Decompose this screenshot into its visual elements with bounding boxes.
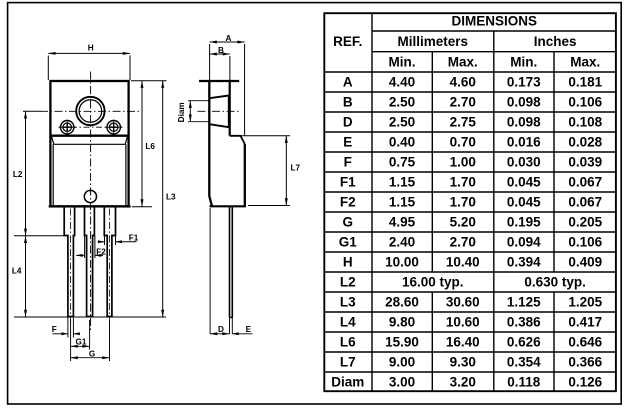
lead left [64, 206, 74, 316]
mounting hole [76, 97, 104, 125]
vertical in min/max [553, 52, 555, 392]
svg-text:0.067: 0.067 [568, 195, 602, 210]
svg-text:10.40: 10.40 [446, 255, 480, 270]
svg-text:30.60: 30.60 [446, 295, 480, 310]
dimension A [210, 42, 245, 136]
svg-text:1.70: 1.70 [450, 175, 476, 190]
svg-text:E: E [246, 325, 252, 334]
dimension F2 [76, 236, 103, 258]
svg-text:4.60: 4.60 [450, 75, 476, 90]
svg-text:1.125: 1.125 [507, 295, 541, 310]
svg-text:9.30: 9.30 [450, 355, 476, 370]
table outer border [324, 13, 616, 391]
svg-text:Max.: Max. [448, 55, 478, 70]
top edge [199, 80, 239, 82]
tab bottom line [49, 135, 129, 137]
svg-text:L2: L2 [340, 275, 356, 290]
side lead [230, 206, 233, 317]
svg-text:0.098: 0.098 [507, 95, 541, 110]
horizontal row lines [324, 71, 616, 73]
svg-text:2.50: 2.50 [389, 95, 415, 110]
side view outline [199, 81, 246, 318]
svg-text:0.126: 0.126 [568, 375, 602, 390]
dimension L4 [14, 236, 166, 317]
svg-text:0.028: 0.028 [568, 135, 602, 150]
centerline hole side [198, 110, 241, 112]
svg-text:0.106: 0.106 [568, 95, 602, 110]
dimension L2 [14, 111, 64, 236]
dimension D [210, 208, 232, 334]
svg-text:Inches: Inches [534, 34, 577, 49]
svg-text:E: E [343, 135, 352, 150]
svg-text:B: B [218, 46, 224, 55]
dimension L3 [162, 81, 164, 317]
svg-text:G: G [89, 349, 95, 358]
vertical mm/inches [493, 31, 495, 391]
svg-text:0.646: 0.646 [568, 335, 602, 350]
step and chamfer [230, 136, 245, 144]
centerline lead right [109, 209, 111, 323]
svg-text:B: B [343, 95, 353, 110]
horizontal header lines [372, 30, 616, 32]
dimension H [48, 53, 130, 80]
dimension E [232, 333, 252, 335]
svg-text:0.016: 0.016 [507, 135, 541, 150]
svg-text:0.205: 0.205 [568, 215, 602, 230]
svg-text:0.098: 0.098 [507, 115, 541, 130]
svg-text:REF.: REF. [333, 34, 362, 49]
svg-text:0.366: 0.366 [568, 355, 602, 370]
body back face [244, 144, 246, 206]
svg-text:3.20: 3.20 [450, 375, 476, 390]
svg-text:0.195: 0.195 [507, 215, 541, 230]
svg-text:H: H [88, 44, 94, 53]
svg-text:2.50: 2.50 [389, 115, 415, 130]
svg-text:0.039: 0.039 [568, 155, 602, 170]
svg-text:10.00: 10.00 [385, 255, 419, 270]
svg-text:0.045: 0.045 [507, 195, 541, 210]
svg-text:1.15: 1.15 [389, 175, 416, 190]
svg-text:2.70: 2.70 [450, 235, 476, 250]
lead middle [85, 206, 95, 316]
svg-text:H: H [343, 255, 353, 270]
dimension B [210, 54, 230, 80]
svg-text:L4: L4 [12, 266, 22, 275]
svg-text:Min.: Min. [510, 55, 537, 70]
dimension Diam [188, 101, 209, 122]
dimension F1 [98, 236, 137, 245]
screw left [59, 120, 76, 135]
svg-text:0.409: 0.409 [568, 255, 602, 270]
svg-text:Min.: Min. [389, 55, 416, 70]
svg-text:0.394: 0.394 [507, 255, 541, 270]
svg-text:4.95: 4.95 [389, 215, 416, 230]
svg-text:2.70: 2.70 [450, 95, 476, 110]
dimension L6 [131, 81, 167, 207]
svg-text:9.00: 9.00 [389, 355, 415, 370]
svg-text:L3: L3 [166, 193, 176, 202]
centerline lead left [70, 209, 72, 323]
svg-text:0.386: 0.386 [507, 315, 541, 330]
svg-text:2.40: 2.40 [389, 235, 415, 250]
svg-text:F1: F1 [340, 175, 356, 190]
svg-text:0.030: 0.030 [507, 155, 541, 170]
svg-text:0.094: 0.094 [507, 235, 541, 250]
vertical mm min/max [431, 52, 433, 392]
dimension G1 [71, 320, 90, 361]
svg-text:0.173: 0.173 [507, 75, 541, 90]
dimension G [71, 320, 110, 361]
svg-text:F: F [344, 155, 352, 170]
svg-text:D: D [218, 325, 224, 334]
svg-text:1.70: 1.70 [450, 195, 476, 210]
svg-text:0.354: 0.354 [507, 355, 541, 370]
svg-text:15.90: 15.90 [385, 335, 419, 350]
svg-text:G1: G1 [76, 337, 87, 346]
table grid [324, 13, 616, 391]
dimension L7 [241, 136, 291, 206]
svg-text:10.60: 10.60 [446, 315, 480, 330]
svg-text:L6: L6 [145, 142, 155, 151]
svg-text:A: A [226, 34, 232, 43]
svg-text:G: G [342, 215, 353, 230]
svg-text:0.118: 0.118 [507, 375, 541, 390]
body bottom [210, 205, 246, 207]
table header text [333, 13, 600, 69]
svg-text:L7: L7 [291, 164, 301, 173]
svg-text:9.80: 9.80 [389, 315, 415, 330]
svg-text:0.630 typ.: 0.630 typ. [524, 275, 586, 290]
body groove band [52, 137, 128, 145]
svg-text:0.067: 0.067 [568, 175, 602, 190]
svg-text:D: D [343, 115, 353, 130]
svg-text:Max.: Max. [570, 55, 600, 70]
svg-text:5.20: 5.20 [450, 215, 476, 230]
screw right [105, 120, 122, 135]
centerline vertical package [90, 72, 92, 331]
front view package outline [49, 81, 131, 206]
svg-text:F1: F1 [129, 233, 139, 242]
centerline screws horizontal [59, 126, 123, 128]
lead right [104, 206, 115, 316]
svg-text:L7: L7 [340, 355, 356, 370]
table data text [331, 75, 602, 390]
svg-text:Diam: Diam [331, 375, 364, 390]
svg-text:0.106: 0.106 [568, 235, 602, 250]
svg-text:0.108: 0.108 [568, 115, 602, 130]
svg-text:F2: F2 [96, 247, 106, 256]
svg-text:16.00 typ.: 16.00 typ. [402, 275, 464, 290]
svg-text:0.626: 0.626 [507, 335, 541, 350]
body index circle [84, 190, 96, 202]
hole funnel [209, 96, 228, 128]
svg-text:0.417: 0.417 [568, 315, 602, 330]
dimension F [53, 318, 80, 338]
body inner side lines [53, 144, 126, 205]
svg-text:L2: L2 [13, 170, 23, 179]
svg-text:28.60: 28.60 [385, 295, 419, 310]
tab back face [229, 81, 231, 136]
svg-text:L4: L4 [340, 315, 356, 330]
svg-text:1.205: 1.205 [568, 295, 602, 310]
svg-text:A: A [343, 75, 353, 90]
svg-text:16.40: 16.40 [446, 335, 480, 350]
svg-text:L3: L3 [340, 295, 356, 310]
centerline hole horizontal [40, 110, 142, 112]
svg-text:F2: F2 [340, 195, 356, 210]
svg-text:0.181: 0.181 [568, 75, 602, 90]
svg-text:1.00: 1.00 [450, 155, 476, 170]
svg-text:0.75: 0.75 [389, 155, 416, 170]
front face [209, 81, 212, 206]
svg-text:F: F [52, 325, 57, 334]
svg-text:Diam: Diam [177, 102, 186, 122]
svg-text:Millimeters: Millimeters [397, 34, 468, 49]
svg-text:0.045: 0.045 [507, 175, 541, 190]
vertical after REF [371, 13, 373, 391]
svg-text:3.00: 3.00 [389, 375, 415, 390]
svg-text:2.75: 2.75 [450, 115, 477, 130]
svg-text:4.40: 4.40 [389, 75, 415, 90]
svg-text:DIMENSIONS: DIMENSIONS [451, 13, 537, 28]
svg-text:0.40: 0.40 [389, 135, 415, 150]
svg-text:G1: G1 [339, 235, 358, 250]
svg-text:0.70: 0.70 [450, 135, 476, 150]
svg-text:L6: L6 [340, 335, 356, 350]
package bottom line [49, 205, 131, 207]
svg-text:1.15: 1.15 [389, 195, 416, 210]
